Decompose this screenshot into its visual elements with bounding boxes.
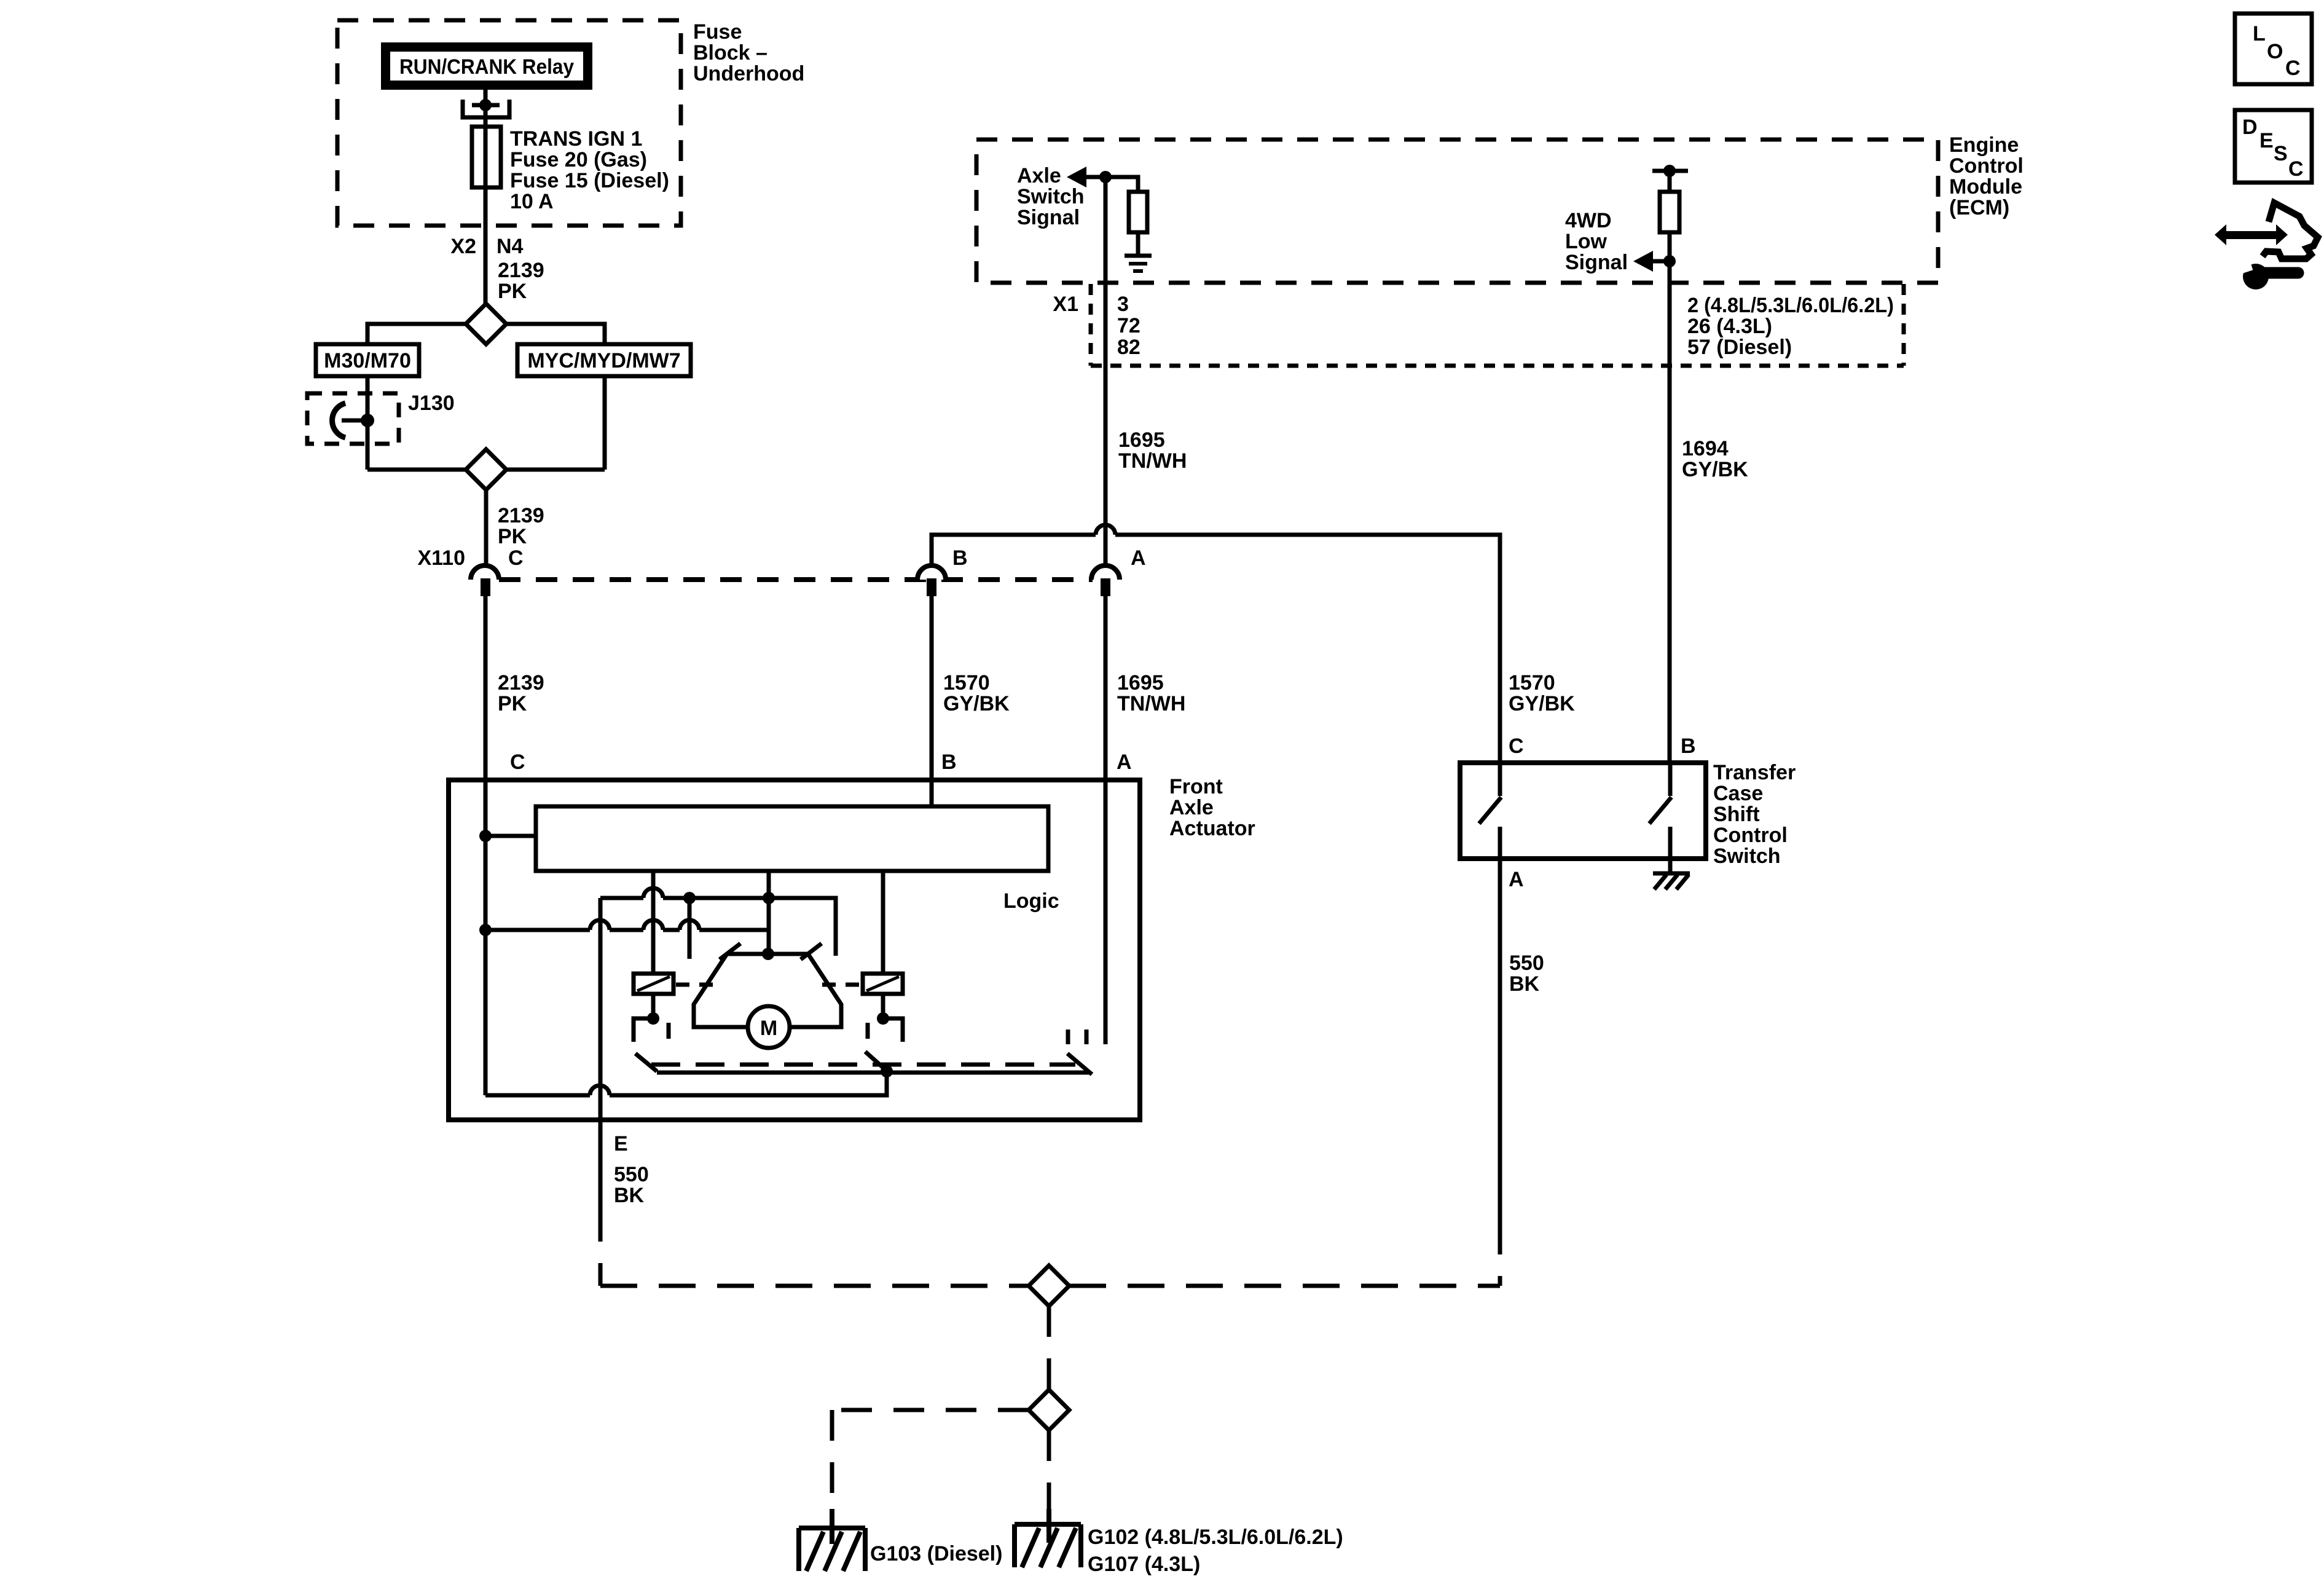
- switch B contact: [1649, 763, 1671, 859]
- svg-text:2139: 2139: [498, 259, 544, 282]
- resistor R2: [1660, 192, 1679, 232]
- wire MYC down: [603, 376, 607, 470]
- label 2139 PK: [498, 259, 544, 303]
- coil link dashes right: [822, 983, 860, 987]
- label 2139 PK third: [498, 671, 544, 715]
- svg-text:PK: PK: [498, 692, 527, 715]
- svg-text:N4: N4: [497, 235, 524, 258]
- svg-text:Switch: Switch: [1017, 185, 1085, 208]
- splice diamond upper: [466, 304, 506, 344]
- label G102 G107: [1088, 1526, 1343, 1576]
- switch chassis ground: [1653, 859, 1690, 889]
- svg-text:Fuse 20 (Gas): Fuse 20 (Gas): [510, 148, 647, 171]
- svg-text:Signal: Signal: [1565, 251, 1628, 274]
- svg-text:1694: 1694: [1682, 437, 1729, 460]
- svg-text:Control: Control: [1949, 154, 2024, 178]
- label E 550 BK: [614, 1132, 649, 1207]
- label 1694 GY/BK: [1682, 437, 1748, 481]
- svg-text:550: 550: [1509, 951, 1544, 975]
- wire diamond to M30 branch: [367, 324, 466, 344]
- svg-text:1695: 1695: [1117, 671, 1164, 695]
- label 1570 GY/BK left: [943, 671, 1010, 715]
- wrench arrow icon: [2215, 203, 2318, 289]
- label 1570 GY/BK right: [1509, 671, 1575, 715]
- svg-text:Front: Front: [1169, 775, 1223, 798]
- svg-text:C: C: [1509, 734, 1524, 758]
- X110 inline connector dashed line: [499, 577, 1093, 582]
- resistor R1: [1129, 192, 1147, 232]
- svg-text:Signal: Signal: [1017, 206, 1080, 229]
- svg-text:A: A: [1131, 546, 1146, 570]
- right coil lower wire and bracket: [868, 994, 903, 1042]
- internal stub from H0: [688, 898, 692, 959]
- relay coil right: [863, 974, 903, 994]
- svg-text:Control: Control: [1713, 824, 1788, 847]
- pin numbers 2 26 57: [1687, 294, 1894, 359]
- feedback blade left: [635, 1053, 657, 1071]
- svg-text:2139: 2139: [498, 671, 544, 695]
- svg-text:GY/BK: GY/BK: [1682, 458, 1748, 481]
- feedback switch dashed line: [651, 1063, 1075, 1067]
- wire 1695 TN/WH from ECM: [1104, 177, 1108, 565]
- svg-text:Block –: Block –: [693, 41, 767, 65]
- svg-text:M30/M70: M30/M70: [324, 349, 411, 372]
- svg-text:(ECM): (ECM): [1949, 196, 2009, 219]
- motor M: [748, 1006, 790, 1048]
- label 2139 PK second: [498, 504, 544, 548]
- svg-text:Module: Module: [1949, 175, 2022, 199]
- relay RUN/CRANK Relay: [386, 47, 588, 85]
- relay coil left: [634, 974, 673, 994]
- svg-text:Transfer: Transfer: [1713, 761, 1796, 784]
- label 4WD Low Signal: [1565, 209, 1628, 274]
- svg-text:C: C: [508, 546, 524, 570]
- transfer case pin letters: [1509, 734, 1696, 758]
- connector A arc: [1091, 546, 1146, 596]
- connector C arc: [471, 546, 524, 596]
- svg-text:Actuator: Actuator: [1169, 817, 1255, 840]
- svg-text:3: 3: [1117, 293, 1129, 316]
- wire diamond to X110 C: [484, 490, 489, 565]
- svg-text:RUN/CRANK Relay: RUN/CRANK Relay: [399, 55, 574, 79]
- dashed wire to G102: [1047, 1430, 1051, 1524]
- box M30/M70: [316, 344, 419, 376]
- fuse TRANS IGN 1: [472, 127, 501, 187]
- actuator pin letters C B A: [510, 750, 1132, 774]
- splice diamond G1: [1029, 1266, 1069, 1306]
- wire C to actuator: [484, 596, 488, 780]
- wire A 550 BK dashed: [1498, 1218, 1502, 1286]
- svg-text:C: C: [510, 750, 525, 774]
- svg-text:B: B: [952, 546, 968, 570]
- DESC icon box: [2235, 110, 2312, 183]
- svg-text:M: M: [760, 1017, 777, 1040]
- svg-text:Axle: Axle: [1017, 164, 1061, 187]
- svg-text:BK: BK: [1509, 972, 1540, 996]
- svg-text:Fuse: Fuse: [693, 20, 742, 44]
- label X2 N4: [450, 235, 523, 258]
- svg-text:G107 (4.3L): G107 (4.3L): [1088, 1553, 1200, 1576]
- internal horizontal H1: [485, 920, 769, 930]
- 4wd low signal arrow: [1633, 251, 1676, 272]
- 4wd pin bracket: [1652, 165, 1688, 177]
- label Axle Switch Signal: [1017, 164, 1085, 229]
- svg-text:26 (4.3L): 26 (4.3L): [1687, 315, 1772, 338]
- logic output V3: [881, 871, 885, 974]
- svg-text:J130: J130: [408, 392, 455, 415]
- svg-text:1570: 1570: [1509, 671, 1555, 695]
- J130 weld symbol: [332, 403, 374, 438]
- logic output V2: [767, 871, 771, 954]
- wire MYC to lower diamond: [506, 468, 605, 472]
- label 550 BK right: [1509, 951, 1544, 996]
- splice diamond G2: [1029, 1390, 1069, 1430]
- fuse block underhood dashed box: [337, 20, 681, 226]
- svg-text:TN/WH: TN/WH: [1117, 692, 1185, 715]
- svg-text:57 (Diesel): 57 (Diesel): [1687, 336, 1792, 359]
- svg-text:1695: 1695: [1118, 428, 1165, 452]
- label 1695 TN/WH lower: [1117, 671, 1185, 715]
- wire B to actuator: [930, 596, 934, 780]
- svg-text:X1: X1: [1053, 293, 1078, 316]
- wire M30 down: [366, 376, 370, 470]
- actuator B wire internal: [930, 780, 934, 806]
- dashed horizontal 550 BK: [600, 1284, 1500, 1288]
- junction dot C to logic: [479, 830, 492, 842]
- svg-text:C: C: [2288, 157, 2304, 181]
- internal horizontal H0: [600, 888, 836, 956]
- actuator C wire internal: [484, 780, 488, 1095]
- svg-text:TN/WH: TN/WH: [1118, 449, 1187, 473]
- junction dot C to H1: [479, 924, 492, 936]
- svg-text:550: 550: [614, 1163, 649, 1186]
- ground internal ECM: [1125, 256, 1152, 271]
- feedback switch solid line: [657, 1071, 1091, 1075]
- svg-text:Shift: Shift: [1713, 803, 1760, 826]
- svg-text:O: O: [2267, 40, 2283, 63]
- wire A 550 BK solid: [1498, 859, 1502, 1218]
- svg-text:2 (4.8L/5.3L/6.0L/6.2L): 2 (4.8L/5.3L/6.0L/6.2L): [1687, 294, 1894, 317]
- wire E 550 BK dashed: [599, 1205, 603, 1286]
- dashed wire to G103: [832, 1410, 1029, 1524]
- svg-text:Case: Case: [1713, 782, 1763, 805]
- wire relay to fuse: [484, 90, 488, 304]
- wire to resistor R1: [1105, 177, 1138, 192]
- svg-text:Axle: Axle: [1169, 796, 1214, 819]
- actuator A wire internal: [1104, 780, 1108, 1044]
- A wire end ticks: [1068, 1030, 1086, 1044]
- svg-text:G103 (Diesel): G103 (Diesel): [870, 1542, 1002, 1565]
- E wire internal: [599, 898, 603, 1205]
- pin numbers 3 72 82: [1117, 293, 1140, 359]
- relay pin bracket: [463, 99, 509, 117]
- svg-text:A: A: [1509, 868, 1524, 891]
- svg-text:Engine: Engine: [1949, 133, 2019, 157]
- label 1695 TN/WH upper: [1118, 428, 1187, 473]
- svg-text:GY/BK: GY/BK: [1509, 692, 1575, 715]
- feedback tap wire: [485, 1071, 887, 1095]
- box MYC/MYD/MW7: [517, 344, 691, 376]
- wire A to actuator: [1104, 596, 1108, 780]
- feedback blade right: [1067, 1053, 1092, 1074]
- svg-text:82: 82: [1117, 336, 1140, 359]
- svg-text:B: B: [941, 750, 957, 774]
- svg-text:B: B: [1681, 734, 1696, 758]
- wire C to logic left: [485, 834, 536, 838]
- svg-text:PK: PK: [498, 280, 527, 303]
- wire 1694 GY/BK from ECM: [1668, 171, 1672, 763]
- wire B to transfer case C with hop: [932, 525, 1500, 763]
- svg-text:4WD: 4WD: [1565, 209, 1612, 232]
- svg-text:C: C: [2285, 57, 2301, 80]
- coil link dashes left: [676, 983, 714, 987]
- dashed vertical between diamonds: [1047, 1306, 1051, 1390]
- svg-text:L: L: [2253, 22, 2266, 45]
- switch C contact: [1479, 763, 1501, 859]
- svg-text:MYC/MYD/MW7: MYC/MYD/MW7: [527, 349, 680, 372]
- wire resistor to ground: [1136, 232, 1140, 256]
- svg-text:Switch: Switch: [1713, 845, 1781, 868]
- transfer case shift control switch box: [1460, 763, 1706, 859]
- ECM dashed box: [976, 140, 1938, 283]
- connector B arc: [917, 546, 968, 596]
- ground G103: [799, 1509, 865, 1571]
- svg-text:Fuse 15 (Diesel): Fuse 15 (Diesel): [510, 169, 669, 192]
- svg-text:Underhood: Underhood: [693, 62, 804, 85]
- svg-text:E: E: [614, 1132, 628, 1156]
- svg-text:X110: X110: [417, 546, 465, 570]
- wire diamond to MYC branch: [506, 324, 605, 344]
- svg-text:1570: 1570: [943, 671, 990, 695]
- svg-text:A: A: [1117, 750, 1132, 774]
- label Front Axle Actuator: [1169, 775, 1255, 840]
- X1 pin box dashed: [1091, 284, 1904, 366]
- feedback blade center: [865, 1052, 893, 1077]
- svg-text:Low: Low: [1565, 230, 1608, 253]
- left coil lower wire and bracket: [634, 994, 669, 1042]
- svg-text:PK: PK: [498, 525, 527, 548]
- ground G102: [1015, 1509, 1081, 1567]
- svg-text:E: E: [2259, 129, 2274, 152]
- label Engine Control Module (ECM): [1949, 133, 2024, 219]
- svg-text:G102 (4.8L/5.3L/6.0L/6.2L): G102 (4.8L/5.3L/6.0L/6.2L): [1088, 1526, 1343, 1549]
- J130 dashed box: [307, 393, 399, 444]
- wire M30 to lower diamond: [367, 468, 466, 472]
- svg-text:BK: BK: [614, 1184, 645, 1207]
- logic output V1: [651, 871, 656, 974]
- svg-text:72: 72: [1117, 314, 1140, 337]
- logic box: [536, 806, 1048, 871]
- front axle actuator outer box: [449, 780, 1140, 1120]
- motor trapezoid: [694, 943, 841, 1027]
- svg-text:2139: 2139: [498, 504, 544, 527]
- axle switch signal arrow: [1067, 167, 1112, 187]
- svg-text:10 A: 10 A: [510, 190, 554, 213]
- svg-text:D: D: [2242, 116, 2258, 139]
- svg-text:Logic: Logic: [1003, 889, 1059, 913]
- splice diamond lower: [466, 449, 506, 490]
- svg-text:X2: X2: [450, 235, 476, 258]
- label Fuse Block - Underhood: [693, 20, 804, 85]
- svg-text:TRANS IGN 1: TRANS IGN 1: [510, 127, 642, 151]
- LOC icon box: [2235, 14, 2312, 84]
- svg-text:S: S: [2274, 142, 2288, 165]
- label Transfer Case Shift Control Switch: [1713, 761, 1796, 868]
- svg-text:GY/BK: GY/BK: [943, 692, 1010, 715]
